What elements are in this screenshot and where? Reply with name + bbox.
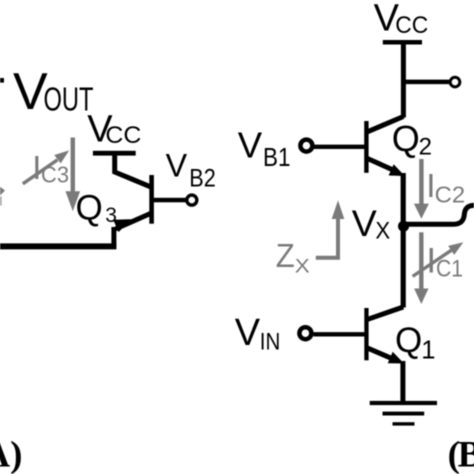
wire Q3 base to terminal bbox=[153, 198, 186, 203]
current arrow IC2 (gray, down) bbox=[414, 159, 429, 219]
label VCC (right) bbox=[374, 0, 429, 39]
wire branch to output terminal bbox=[403, 80, 449, 85]
transistor Q2 emitter arrow bbox=[389, 164, 405, 176]
wire Q1 emitter to ground bbox=[400, 361, 405, 401]
wire Q2 emitter to VX node to Q1 collector bbox=[401, 173, 406, 308]
wire Q2 base to terminal bbox=[314, 145, 365, 149]
svg-text:1: 1 bbox=[421, 337, 435, 365]
terminal VB1 bbox=[300, 140, 312, 152]
wire Q3 emitter down bbox=[111, 227, 116, 246]
label V_OUT bbox=[13, 63, 94, 121]
terminal VB2 bbox=[187, 195, 197, 205]
transistor Q1 emitter diagonal bbox=[366, 348, 395, 360]
svg-text:C3: C3 bbox=[41, 161, 69, 187]
label VIN bbox=[235, 312, 281, 356]
transistor Q3 (PNP) base bar bbox=[149, 175, 154, 224]
terminal VIN bbox=[299, 327, 311, 339]
svg-text:OUT: OUT bbox=[44, 80, 94, 117]
supply VCC bar (left) bbox=[93, 151, 136, 156]
svg-text:IN: IN bbox=[260, 328, 281, 355]
svg-text:V: V bbox=[166, 147, 188, 183]
transistor Q2 collector diagonal bbox=[366, 117, 403, 133]
svg-text:A): A) bbox=[0, 434, 22, 474]
wire V_OUT stub (cut at left edge) bbox=[0, 78, 4, 83]
gray fragment at left edge (cropped arrow) bbox=[0, 187, 5, 206]
label VB2 bbox=[166, 147, 216, 192]
svg-text:Q: Q bbox=[76, 189, 103, 228]
transistor Q2 base bar bbox=[364, 121, 368, 173]
transistor Q1 base bar bbox=[364, 308, 368, 360]
caption (B) (cropped at right edge) bbox=[448, 435, 474, 474]
svg-text:X: X bbox=[375, 217, 390, 244]
svg-text:B: B bbox=[458, 435, 474, 474]
wire VCC down to Q2 bbox=[401, 42, 406, 118]
label IC3 (gray) bbox=[32, 149, 69, 187]
node VX bbox=[398, 221, 409, 232]
current arrow IC1 (gray, down) bbox=[414, 232, 428, 304]
transistor Q1 emitter arrow bbox=[388, 352, 404, 364]
impedance arrow ZX (gray, L-shape up) bbox=[316, 200, 345, 257]
svg-text:V: V bbox=[238, 125, 263, 166]
svg-text:Q: Q bbox=[392, 118, 420, 159]
current arrow IC3 (gray, down) bbox=[66, 138, 81, 212]
label Q1 bbox=[395, 321, 435, 365]
svg-text:Z: Z bbox=[276, 237, 295, 274]
label ZX (gray) bbox=[276, 237, 310, 278]
transistor Q3 emitter arrow bbox=[113, 219, 131, 232]
variable-current slash arrow IC3 (gray) bbox=[23, 150, 69, 183]
label VX bbox=[352, 202, 390, 244]
terminal (output, right) bbox=[450, 77, 460, 87]
svg-text:V: V bbox=[235, 312, 261, 354]
svg-text:C2: C2 bbox=[435, 182, 466, 208]
supply VCC bar (right) bbox=[383, 40, 422, 45]
wire VX node to right edge (S-bend) bbox=[404, 205, 474, 224]
label IC1 (gray) bbox=[426, 242, 463, 283]
label VCC (left) bbox=[87, 108, 141, 150]
wire Q1 base to terminal bbox=[314, 332, 366, 336]
svg-text:CC: CC bbox=[105, 122, 141, 149]
svg-text:Q: Q bbox=[395, 321, 422, 360]
ground symbol bbox=[370, 401, 437, 426]
svg-text:B1: B1 bbox=[263, 142, 291, 172]
svg-text:V: V bbox=[352, 202, 377, 244]
variable-current slash arrow IC1 (gray) bbox=[413, 242, 464, 276]
transistor Q1 collector diagonal bbox=[366, 307, 403, 320]
label VB1 bbox=[238, 125, 291, 172]
svg-text:CC: CC bbox=[395, 12, 428, 39]
wire output rail to left edge bbox=[0, 243, 116, 249]
wire VCC to Q3 collector bbox=[115, 153, 152, 187]
label Q3 bbox=[76, 189, 117, 228]
label Q2 bbox=[392, 118, 432, 161]
label IC2 (gray) bbox=[426, 168, 465, 208]
svg-text:X: X bbox=[295, 256, 310, 277]
svg-text:B2: B2 bbox=[189, 164, 216, 192]
transistor Q3 emitter diagonal bbox=[116, 213, 152, 229]
svg-text:2: 2 bbox=[419, 134, 432, 161]
transistor Q2 emitter diagonal bbox=[366, 158, 396, 171]
